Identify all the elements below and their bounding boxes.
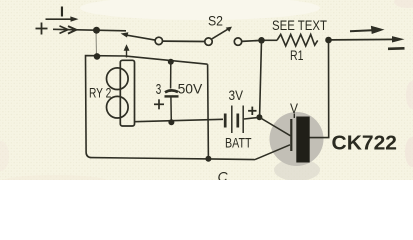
- wire S2 to node B: [242, 40, 259, 43]
- current arrow under I: [46, 16, 79, 21]
- junction node input: [93, 27, 100, 34]
- wire relay to battery: [134, 119, 223, 121]
- svg-text:50V: 50V: [178, 81, 203, 96]
- connection box outline: [86, 56, 209, 159]
- junction node box corner: [205, 156, 211, 162]
- wire node C to output: [332, 36, 405, 42]
- capacitor polarity plus: [154, 99, 164, 109]
- transistor highlight halo: [270, 112, 324, 181]
- emitter lead to rail: [255, 145, 290, 160]
- current direction chevron: [60, 26, 77, 34]
- wire node C down to collector: [309, 40, 329, 138]
- transistor Q1 body bar: [296, 117, 309, 163]
- junction node B: [258, 37, 265, 44]
- junction battery positive node: [256, 114, 262, 120]
- switch S2 left terminal: [205, 38, 212, 45]
- minus output terminal: [388, 47, 405, 50]
- battery B1 negative short plate 1: [224, 114, 227, 128]
- capacitor negative plate: [165, 90, 178, 92]
- paper background washes (decorative): [0, 0, 413, 189]
- relay actuation arrow: [124, 44, 130, 57]
- resistor R1: [277, 34, 318, 46]
- relay RY2 coil loop lower: [107, 96, 129, 118]
- svg-text:3V: 3V: [229, 87, 244, 103]
- wire junction to box top edge: [95, 30, 98, 56]
- junction capacitor top node: [168, 59, 174, 65]
- wire input to relay contact: [53, 29, 126, 31]
- relay RY2 core: [120, 60, 134, 126]
- base lead from battery node: [259, 117, 290, 136]
- switch S2 blade: [212, 27, 232, 39]
- wire battery to node: [244, 118, 258, 119]
- svg-text:R1: R1: [290, 47, 304, 63]
- svg-text:S2: S2: [208, 12, 223, 28]
- junction node A on top edge: [94, 53, 101, 60]
- battery B1 long plate 2: [242, 106, 244, 134]
- junction node C: [325, 37, 332, 44]
- transistor Q1 base plate: [290, 119, 292, 151]
- capacitor positive plate: [165, 95, 179, 97]
- svg-text:RY 2: RY 2: [89, 86, 111, 101]
- capacitor wire top: [170, 62, 172, 89]
- svg-text:I: I: [60, 4, 64, 21]
- wire node B down to battery node: [260, 40, 262, 116]
- svg-text:CK722: CK722: [332, 133, 398, 155]
- relay RY2 coil loop upper: [107, 68, 129, 90]
- junction capacitor bottom node: [168, 119, 174, 125]
- wire contact to S2: [163, 40, 205, 42]
- svg-text:BATT: BATT: [225, 136, 252, 151]
- wire node B to R1: [265, 39, 278, 41]
- svg-text:3: 3: [156, 82, 162, 98]
- relay contact blade: [121, 32, 156, 40]
- output current arrow: [350, 26, 385, 34]
- switch S2 right terminal: [234, 38, 241, 45]
- svg-text:C: C: [218, 169, 229, 181]
- light label V with stub: [290, 100, 299, 118]
- battery B1 negative short plate 2: [236, 114, 239, 128]
- battery B1 long plate 1: [231, 106, 233, 134]
- plus input terminal: [36, 23, 48, 35]
- wire rail corner to emitter lead: [208, 158, 255, 161]
- battery polarity plus: [248, 107, 256, 115]
- svg-text:SEE TEXT: SEE TEXT: [272, 18, 327, 33]
- capacitor wire bottom: [170, 96, 172, 122]
- relay contact terminal circle: [155, 37, 162, 44]
